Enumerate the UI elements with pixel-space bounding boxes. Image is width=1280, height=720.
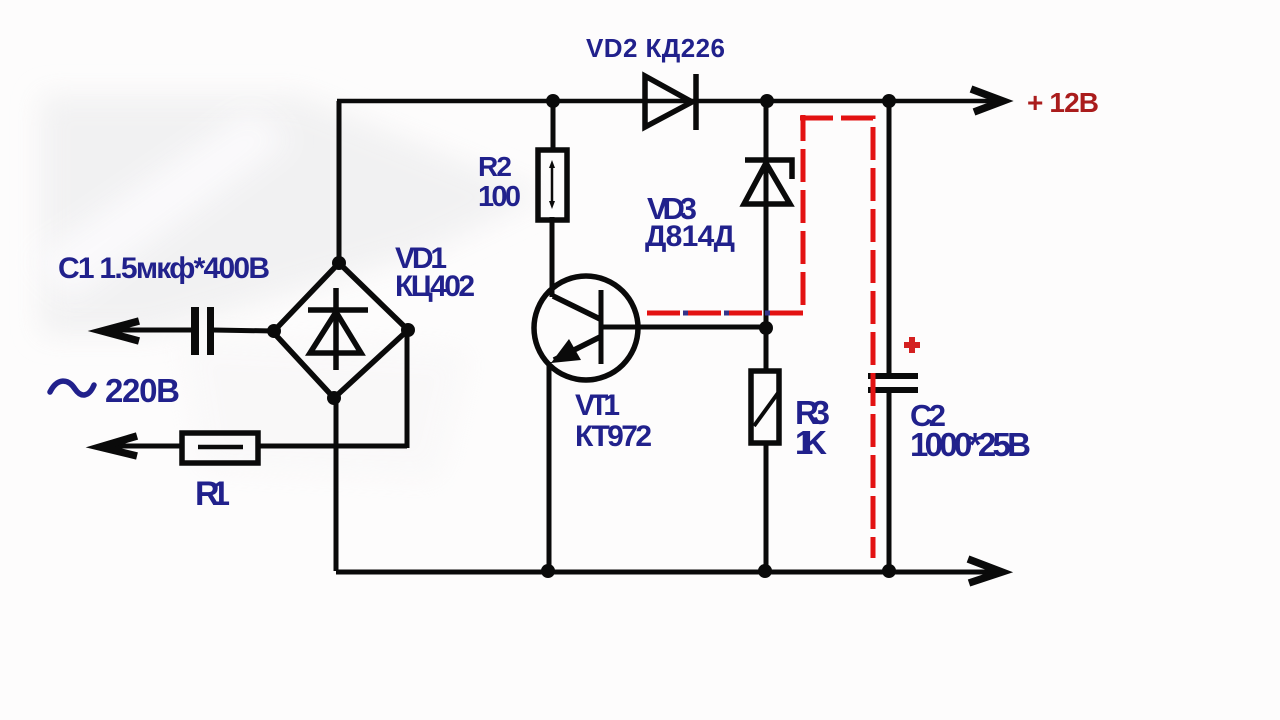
wire C1 left with AC arrow [104,328,191,333]
resistor R2 [538,150,567,220]
node R2 top [546,94,560,108]
wire bottom rail [336,570,995,575]
wire R2 top [551,101,556,150]
svg-text:КЦ402: КЦ402 [395,270,475,303]
capacitor C1 [191,307,214,355]
wire VD3 branch [764,101,769,371]
transistor VT1 [534,276,638,380]
wire bridge bottom drop [334,398,339,571]
node VD2 out [760,94,774,108]
node emitter-rail [541,564,555,578]
wire bridge right drop [405,330,410,448]
zener diode VD3 [744,160,792,204]
svg-text:1000*25В: 1000*25В [910,426,1031,463]
svg-text:КТ972: КТ972 [575,420,652,453]
red dashed wire top horizontal and right vertical [800,118,873,558]
svg-text:+ 12В: + 12В [1027,87,1099,118]
wire R3 bottom [764,443,769,571]
wire R1 right [258,444,407,449]
node C2-rail [882,564,896,578]
capacitor C2 [868,373,918,393]
resistor R1 [182,433,258,463]
wire R1 left with AC arrow [100,444,183,449]
svg-text:220В: 220В [105,372,180,409]
node bridge bottom [327,391,341,405]
svg-text:100: 100 [478,181,521,213]
wire C2 top [887,101,892,373]
red dashed wire from base to left corner [647,115,803,313]
wire emitter [547,362,552,571]
blue dash remnant under red wire [683,311,795,316]
node base-VD3 [759,321,773,335]
node R3-rail [758,564,772,578]
wire C2 bottom [887,393,892,571]
bridge rectifier VD1 [273,263,408,398]
svg-text:VT1: VT1 [575,389,620,422]
emitter arrowhead [551,339,581,363]
output arrow bottom [968,559,1002,583]
output arrow +12V [971,89,1003,112]
wire base [603,325,766,330]
svg-text:Д814Д: Д814Д [645,220,735,253]
svg-text:R2: R2 [478,151,512,182]
svg-text:C1 1.5мкф*400В: C1 1.5мкф*400В [58,252,270,285]
AC symbol ~ [50,381,94,395]
node C2 top [882,94,896,108]
svg-text:VD2 КД226: VD2 КД226 [586,33,725,63]
AC input arrow top [102,321,139,341]
svg-text:R1: R1 [195,475,230,513]
C2 polarity + [904,337,920,353]
svg-text:1K: 1K [795,424,827,461]
diode VD2 [645,74,696,130]
node bridge right [401,323,415,337]
AC input arrow bottom [100,436,137,456]
node bridge left [267,324,281,338]
wire C1 right [213,330,274,331]
wire top-left vertical [337,101,342,265]
wire R2 bottom (collector) [550,217,555,297]
wire top rail [337,99,997,104]
node bridge top [332,256,346,270]
resistor R3 [751,371,779,443]
